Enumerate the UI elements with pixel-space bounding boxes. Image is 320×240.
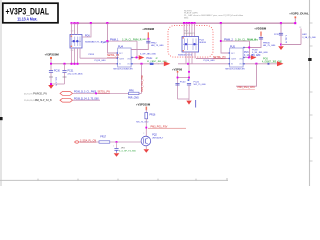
resistor PR6 [128, 89, 139, 99]
sheet border right zone tick (black) [308, 58, 311, 61]
transistor PQ6 (high-side FET) [70, 30, 82, 52]
svg-text:22U_6.3V: 22U_6.3V [54, 77, 56, 87]
off-page connector PM_SLP_S3_B [60, 98, 73, 102]
svg-text:3_GF_JB5_G80: 3_GF_JB5_G80 [140, 54, 157, 56]
svg-text:SETDL_PN: SETDL_PN [98, 91, 111, 94]
svg-text:SI4816: SI4816 [199, 42, 206, 44]
svg-text:PG6: PG6 [263, 58, 268, 61]
svg-text:3_SDA_PL_CM: 3_SDA_PL_CM [80, 139, 96, 142]
svg-text:PWM_1: PWM_1 [110, 39, 119, 42]
svg-text:PQ13_G80: PQ13_G80 [95, 60, 107, 62]
svg-text:PC31: PC31 [68, 71, 74, 73]
wire +V3P3S0M stub [50, 57, 52, 64]
svg-text:+V3P08: +V3P08 [172, 67, 182, 71]
wire output cap column [280, 23, 282, 45]
wire from +V3P3_DUAL label to bus [294, 18, 296, 23]
op-amp gate driver PU5 [225, 46, 245, 71]
wire PWM node drop [108, 23, 118, 53]
off-page arrow PU4 out B [164, 61, 171, 66]
wire PQ6 source pins to bus [72, 23, 78, 34]
capacitor gate filter [113, 142, 137, 153]
wire PU5 out A [243, 57, 251, 59]
wire PWRGD_PN row [73, 92, 129, 94]
svg-text:SI4816BDY: SI4816BDY [184, 33, 195, 35]
svg-text:PR6: PR6 [129, 89, 134, 92]
wire +V3P08 stub/branch left [177, 73, 179, 99]
capacitor PC31 [62, 64, 83, 84]
svg-text:11.13 A Max.: 11.13 A Max. [17, 17, 37, 22]
sheet border bottom ticks [38, 178, 227, 180]
bead on out B wire (blue) [150, 63, 154, 65]
sheet border right edge ticks [309, 23, 313, 161]
op-amp gate driver PU4 [113, 46, 133, 71]
svg-text:OND: OND [239, 59, 244, 61]
node dot rail FET [187, 63, 189, 65]
power tick +V3P08 (orange) [177, 71, 179, 73]
capacitor PC40 [175, 81, 186, 85]
node dot gate [116, 141, 118, 143]
svg-text:PQ2: PQ2 [152, 135, 157, 137]
off-page connector gate (red) [75, 141, 80, 143]
node dot out B [255, 63, 257, 65]
svg-text:SI4816BDY-T1: SI4816BDY-T1 [178, 54, 193, 56]
wire PQ6 gate pin down [79, 48, 81, 58]
svg-text:1: 1 [113, 146, 114, 148]
power flag down (red) [186, 101, 191, 105]
svg-text:PC40: PC40 [180, 81, 186, 83]
svg-text:4: 4 [158, 63, 159, 65]
power pin marker +VDDBM (red bar) [148, 32, 149, 38]
svg-text:HM_75_G80: HM_75_G80 [151, 45, 164, 47]
svg-text:32: 32 [299, 27, 301, 29]
pin dots PU5 (blue) [229, 47, 245, 65]
svg-text:PWM_2: PWM_2 [224, 38, 234, 41]
node dot out A [248, 57, 250, 59]
svg-text:3_3A_CL_PWM_R: 3_3A_CL_PWM_R [122, 39, 142, 42]
svg-text:74K_75_G80: 74K_75_G80 [136, 122, 149, 124]
node PWM_1 junction dot [106, 40, 108, 42]
svg-text:22U_6.3V_0805: 22U_6.3V_0805 [68, 73, 84, 75]
wire FET rail to PU5 [178, 63, 230, 65]
svg-text:PR17: PR17 [100, 136, 106, 138]
svg-text:+V3P3_DUAL: +V3P3_DUAL [289, 12, 309, 16]
svg-text:GATE: GATE [231, 58, 237, 61]
svg-text:PC41: PC41 [194, 81, 200, 83]
power flag blue bracket [195, 100, 197, 108]
svg-text:SETDL_P3: SETDL_P3 [213, 56, 226, 59]
wire +VDDBM stub [131, 39, 148, 50]
wire SETDL_P3 into PU5 [196, 58, 230, 60]
node dot under marker [147, 38, 149, 40]
svg-text:SN74LVC1G08DCKR: SN74LVC1G08DCKR [225, 69, 245, 71]
wire PR16 to PQ2 [145, 119, 147, 137]
wire PQ6 drain pins down to S0M rail [72, 48, 78, 64]
node S0M rail [51, 63, 118, 65]
wire PQ2 source [145, 146, 147, 149]
svg-text:2: 2 [143, 133, 144, 135]
ground S0M caps [48, 85, 54, 89]
power pin marker S5M (red bar) [146, 107, 148, 111]
svg-text:SETDL_P3: SETDL_P3 [107, 54, 120, 57]
svg-text:PU5: PU5 [230, 46, 235, 49]
title box +V3P3_DUAL [3, 3, 58, 23]
wire +V3P3S5M stub [145, 110, 147, 113]
wire output right riser [300, 29, 302, 45]
svg-text:2N7002K-7: 2N7002K-7 [152, 138, 164, 140]
svg-text:3_3_GF_TS_800: 3_3_GF_TS_800 [119, 150, 137, 152]
wire PU5 out B [243, 63, 278, 65]
transistor PQ7 dual FET [182, 37, 199, 53]
svg-text:3_1A_JB5_G80: 3_1A_JB5_G80 [244, 54, 261, 57]
svg-text:HR2: HR2 [302, 34, 307, 36]
svg-text:PWRGD_PN: PWRGD_PN [33, 92, 47, 95]
ground output rail [278, 46, 284, 50]
wire PM3_PG4 drop [236, 64, 257, 86]
svg-text:PM_SLP_S3_B: PM_SLP_S3_B [35, 99, 52, 102]
sheet border bottom edge [0, 179, 228, 181]
svg-text:562_75_G80: 562_75_G80 [194, 84, 207, 86]
svg-text:+V3P3S5M: +V3P3S5M [136, 102, 151, 106]
sheet border right edge [309, 0, 311, 186]
off-page arrow PU4 out A [139, 55, 145, 59]
sheet border left zone tick (black) [0, 117, 3, 120]
svg-text:PQ14_G80: PQ14_G80 [204, 60, 216, 62]
wire PWM_1 down leg [136, 41, 138, 57]
wire PC41 lower leg [188, 85, 190, 100]
svg-text:+VDDBM: +VDDBM [142, 27, 155, 31]
wires bus into dual FET [184, 23, 194, 36]
node dot cap column [280, 44, 282, 46]
dashed block power stage 2 [168, 26, 213, 57]
pin dots PU4 (blue) [117, 52, 133, 64]
capacitor right VDDBM [259, 37, 276, 47]
node PWM_2 junction dot [220, 40, 222, 42]
wire SETDL_P3 into PU4 [80, 57, 118, 59]
wire V3P08 tie lower [178, 98, 190, 100]
node dot VCC wire [248, 47, 250, 49]
svg-text:PC37: PC37 [274, 34, 280, 36]
node dot rail riser [141, 63, 143, 65]
power pin marker +VDDBM right (red bar) [260, 32, 261, 37]
wire PWM_1 [108, 40, 138, 42]
wire PWM_2 drop [221, 23, 230, 53]
svg-text:PR16: PR16 [150, 115, 156, 117]
svg-text:P6R_CM5: P6R_CM5 [128, 98, 139, 100]
svg-text:+V3P3S0M: +V3P3S0M [45, 52, 60, 56]
wire PWM_2 label run [221, 40, 250, 42]
node dots V3P08 tie [177, 77, 179, 79]
wire PR6 to riser [139, 92, 142, 94]
wire PQ6 gate from bus drop [82, 23, 91, 37]
wire PM_SLP_S3_B row [73, 99, 101, 101]
capacitor PC41 [187, 79, 206, 86]
wire PU4 feedback riser [141, 64, 143, 94]
node dot ground tie [50, 83, 52, 85]
svg-text:PL_CAP close to SI4816BDY pins: PL_CAP close to SI4816BDY pins, near PQ7… [184, 14, 244, 17]
svg-text:3_3A_75_G80: 3_3A_75_G80 [302, 36, 316, 39]
wire PU4 out B [131, 63, 164, 65]
main +V3P3 bus wire [73, 22, 295, 24]
rail junction dots [50, 57, 52, 59]
wire cap ground tie [51, 83, 65, 85]
off-page arrow PU5 out B [277, 61, 284, 66]
svg-text:PG1x: PG1x [147, 58, 154, 60]
svg-text:PLACE CAPS: PLACE CAPS [184, 12, 198, 15]
svg-text:PU4: PU4 [118, 46, 123, 49]
svg-text:3_3A_75: 3_3A_75 [285, 35, 288, 44]
wires dual FET bottom pins [186, 52, 195, 81]
svg-text:J_75_G80: J_75_G80 [248, 40, 259, 42]
svg-text:+VDDBM: +VDDBM [254, 27, 267, 31]
off-page arrow PU5 out A [251, 55, 257, 59]
svg-text:GATE: GATE [119, 58, 125, 61]
capacitor PC30 [49, 64, 61, 87]
wire V3P08 tie upper [178, 77, 190, 79]
ground gate cap [114, 153, 120, 157]
sheet border left edge [0, 0, 2, 186]
node dot PU4 out A [136, 57, 138, 59]
capacitor PR42 [146, 41, 164, 47]
ground PQ2 [144, 149, 150, 153]
svg-text:OND: OND [127, 59, 132, 61]
wire PWM_2 down leg [249, 41, 251, 57]
svg-text:PR13: PR13 [89, 54, 95, 56]
svg-text:PM3_PG1_P3V: PM3_PG1_P3V [141, 75, 144, 92]
node dot PG1 [145, 127, 147, 129]
resistor PR16 [136, 113, 156, 124]
svg-text:PG5: PG5 [244, 52, 249, 54]
wire +VDDBM stub right [243, 36, 261, 48]
svg-text:5_34_3_75_G80: 5_34_3_75_G80 [82, 99, 100, 101]
svg-text:3_3_CL_P600: 3_3_CL_P600 [82, 92, 97, 94]
wire PQ2 gate row [78, 141, 142, 143]
svg-text:46,74,75: 46,74,75 [24, 93, 33, 95]
svg-text:J_G80: J_G80 [140, 39, 147, 41]
notes text block (gray) [184, 10, 244, 19]
wire PU4 out A [131, 57, 139, 59]
svg-text:3_1R_JB5_G80: 3_1R_JB5_G80 [252, 52, 268, 54]
off-page connector PWRGD_PN [60, 92, 73, 96]
svg-text:PC30: PC30 [54, 71, 60, 73]
svg-text:1_A7: 1_A7 [101, 41, 107, 44]
svg-text:PM3_PG4_CPU: PM3_PG4_CPU [238, 86, 256, 89]
svg-text:HR_75_G80: HR_75_G80 [263, 45, 276, 47]
power tick +V3P3_DUAL (orange) [295, 16, 297, 18]
wire output link rail [281, 44, 301, 46]
capacitor PC37 [274, 33, 287, 44]
svg-text:SN74LVC1G08DCKR: SN74LVC1G08DCKR [113, 69, 133, 71]
bus junction dots [71, 22, 297, 24]
transistor PQ2 [141, 136, 151, 146]
resistor PR17 [99, 136, 110, 143]
